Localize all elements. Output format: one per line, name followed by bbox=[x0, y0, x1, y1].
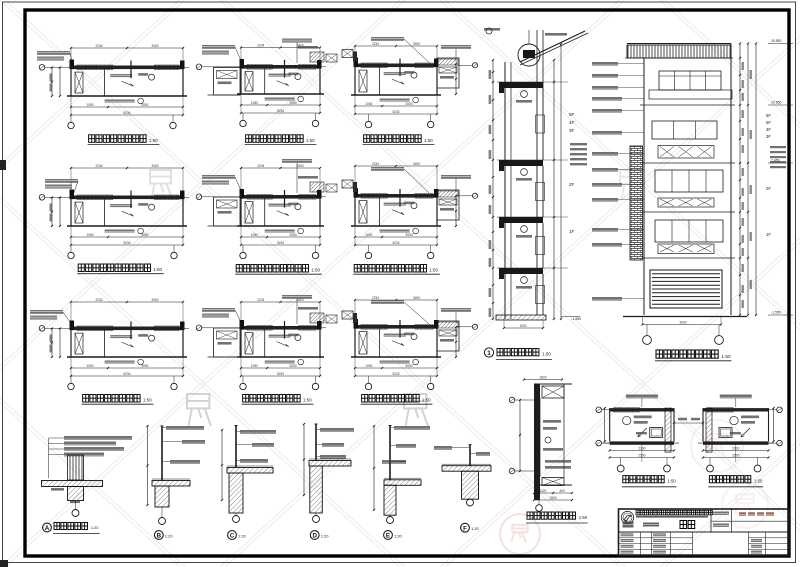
svg-text:1:20: 1:20 bbox=[471, 526, 480, 531]
svg-text:2F: 2F bbox=[569, 182, 575, 187]
svg-text:1050: 1050 bbox=[86, 364, 93, 368]
svg-text:5234: 5234 bbox=[277, 241, 284, 245]
svg-text:5234: 5234 bbox=[392, 110, 399, 114]
svg-text:2234: 2234 bbox=[257, 43, 264, 47]
svg-text:3400: 3400 bbox=[151, 164, 158, 168]
svg-text:3050: 3050 bbox=[406, 102, 413, 106]
svg-text:1F: 1F bbox=[766, 232, 771, 237]
svg-text:1F: 1F bbox=[569, 229, 575, 234]
svg-text:4F: 4F bbox=[766, 127, 771, 132]
svg-text:1:20: 1:20 bbox=[165, 534, 174, 539]
svg-text:1:50: 1:50 bbox=[579, 515, 588, 520]
svg-text:1500: 1500 bbox=[549, 496, 556, 500]
svg-text:1:50: 1:50 bbox=[721, 354, 731, 360]
svg-text:1:20: 1:20 bbox=[238, 534, 247, 539]
svg-text:2300: 2300 bbox=[732, 446, 739, 450]
svg-text:15.550: 15.550 bbox=[771, 39, 781, 43]
svg-text:1820: 1820 bbox=[539, 375, 546, 379]
svg-text:1:50: 1:50 bbox=[542, 352, 551, 357]
svg-text:1050: 1050 bbox=[365, 364, 372, 368]
svg-text:2300: 2300 bbox=[638, 446, 645, 450]
svg-text:3050: 3050 bbox=[406, 364, 413, 368]
svg-text:3F: 3F bbox=[569, 128, 575, 133]
svg-text:3050: 3050 bbox=[290, 364, 297, 368]
svg-text:2234: 2234 bbox=[95, 164, 102, 168]
svg-text:2F: 2F bbox=[766, 186, 771, 191]
svg-text:A: A bbox=[45, 525, 50, 532]
svg-text:3000: 3000 bbox=[679, 320, 686, 324]
svg-text:3F: 3F bbox=[766, 134, 771, 139]
svg-text:400: 400 bbox=[559, 489, 565, 493]
svg-text:1:20: 1:20 bbox=[394, 534, 403, 539]
svg-text:5F: 5F bbox=[766, 120, 771, 125]
svg-text:5234: 5234 bbox=[392, 372, 399, 376]
svg-text:5234: 5234 bbox=[392, 241, 399, 245]
svg-text:4F: 4F bbox=[569, 120, 575, 125]
svg-text:1000: 1000 bbox=[519, 324, 526, 328]
svg-text:1:20: 1:20 bbox=[91, 525, 100, 530]
svg-text:1050: 1050 bbox=[251, 233, 258, 237]
svg-text:2500: 2500 bbox=[732, 453, 739, 457]
svg-text:2234: 2234 bbox=[372, 162, 379, 166]
svg-text:1050: 1050 bbox=[86, 233, 93, 237]
svg-text:5234: 5234 bbox=[123, 241, 130, 245]
svg-text:2234: 2234 bbox=[257, 298, 264, 302]
svg-text:3400: 3400 bbox=[413, 162, 420, 166]
svg-text:1:50: 1:50 bbox=[306, 138, 315, 143]
svg-text:1:50: 1:50 bbox=[303, 398, 312, 403]
svg-text:3400: 3400 bbox=[151, 44, 158, 48]
svg-text:3400: 3400 bbox=[413, 42, 420, 46]
svg-text:5234: 5234 bbox=[277, 109, 284, 113]
svg-text:3050: 3050 bbox=[141, 364, 148, 368]
svg-text:3400: 3400 bbox=[413, 296, 420, 300]
svg-text:3400: 3400 bbox=[297, 164, 304, 168]
svg-text:5F: 5F bbox=[569, 112, 575, 117]
svg-text:1:50: 1:50 bbox=[424, 138, 433, 143]
svg-text:10.550: 10.550 bbox=[771, 101, 781, 105]
svg-text:1:20: 1:20 bbox=[321, 534, 330, 539]
svg-text:1050: 1050 bbox=[365, 233, 372, 237]
svg-text:-1.550: -1.550 bbox=[771, 311, 781, 315]
svg-text:6F: 6F bbox=[766, 113, 771, 118]
svg-text:2234: 2234 bbox=[95, 44, 102, 48]
svg-text:3050: 3050 bbox=[290, 233, 297, 237]
svg-text:3050: 3050 bbox=[141, 103, 148, 107]
svg-text:1:50: 1:50 bbox=[422, 398, 431, 403]
svg-text:1050: 1050 bbox=[365, 102, 372, 106]
svg-text:1: 1 bbox=[487, 350, 491, 357]
svg-text:1:50: 1:50 bbox=[311, 268, 320, 273]
svg-text:1:50: 1:50 bbox=[143, 398, 152, 403]
svg-text:1:50: 1:50 bbox=[429, 268, 438, 273]
svg-text:B: B bbox=[157, 533, 162, 540]
svg-text:1:50: 1:50 bbox=[754, 479, 763, 484]
svg-text:1050: 1050 bbox=[86, 103, 93, 107]
svg-text:3050: 3050 bbox=[290, 101, 297, 105]
svg-text:5234: 5234 bbox=[277, 372, 284, 376]
svg-text:1050: 1050 bbox=[251, 364, 258, 368]
svg-text:1050: 1050 bbox=[251, 101, 258, 105]
svg-text:2234: 2234 bbox=[372, 296, 379, 300]
svg-text:3050: 3050 bbox=[141, 233, 148, 237]
svg-text:2234: 2234 bbox=[372, 42, 379, 46]
svg-text:2500: 2500 bbox=[638, 453, 645, 457]
svg-text:-1.550: -1.550 bbox=[571, 317, 581, 321]
svg-text:2234: 2234 bbox=[95, 298, 102, 302]
svg-text:3050: 3050 bbox=[406, 233, 413, 237]
svg-text:E: E bbox=[386, 533, 390, 540]
svg-text:F: F bbox=[463, 525, 467, 532]
svg-text:1:50: 1:50 bbox=[153, 267, 162, 272]
svg-text:C: C bbox=[230, 533, 235, 540]
svg-text:1:50: 1:50 bbox=[667, 479, 676, 484]
svg-text:5234: 5234 bbox=[123, 111, 130, 115]
svg-text:2234: 2234 bbox=[257, 164, 264, 168]
svg-text:D: D bbox=[312, 533, 317, 540]
svg-text:5234: 5234 bbox=[123, 372, 130, 376]
svg-text:1:50: 1:50 bbox=[149, 138, 158, 143]
svg-text:3400: 3400 bbox=[151, 298, 158, 302]
svg-text:1120: 1120 bbox=[540, 489, 547, 493]
